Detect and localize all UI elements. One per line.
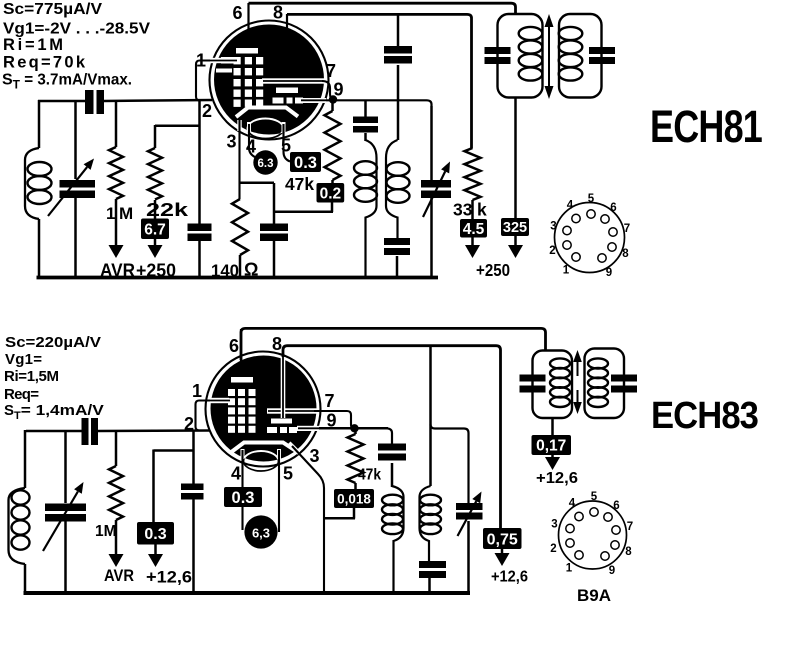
svg-text:Sc=220µA/V: Sc=220µA/V [5,334,101,351]
tube ECH83 pin 7 lead outside [314,411,355,429]
IF transformer T1 left winding feed (top) [364,100,367,117]
wire: ground rail (top circuit) [37,276,439,280]
resistor R5 33k [465,148,481,200]
svg-text:6: 6 [232,3,242,23]
tube socket (B9A) pin holes [590,508,598,516]
tube ECH81 bottom seal ellipse (white part inside body) [248,119,284,139]
arrow to +250 (left) [154,239,157,246]
svg-text:1: 1 [563,265,570,277]
arrow below 325 box [508,245,523,258]
svg-text:4: 4 [567,200,574,212]
capacitor C12 above T3 left coil (bottom) [378,444,406,451]
svg-text:6: 6 [613,500,619,512]
svg-text:8: 8 [273,3,283,23]
capacitor C13 below T3 right coil (bottom) [419,561,446,568]
svg-text:0.3: 0.3 [144,526,166,543]
wire: left antenna column (top) [38,100,41,148]
box 0,018 [354,483,357,490]
svg-text:3: 3 [551,519,557,531]
wire: coil2 to trimmer link (bottom) [431,425,469,504]
svg-text:3: 3 [226,132,236,152]
wire: T2 primary to 325 box [514,97,517,246]
tube ECH83 U2 envelope outer circle [206,352,321,467]
IF output transformer T2 right can (top right) [559,14,602,98]
T4 coupling arrows [573,350,582,362]
svg-text:47k: 47k [285,174,314,194]
svg-text:1M: 1M [95,523,117,540]
tube ECH81 pin 7 lead channel [262,78,325,83]
IF transformer T3 right coil L6 (bottom) [420,486,431,561]
tube ECH83 bottom seal ellipse (outer part) [244,451,279,471]
arrow to +12,6 (bottom left) [154,545,157,556]
svg-text:4.5: 4.5 [463,221,485,238]
heater indicator circle 6,3 (bottom) [244,515,277,548]
arrow to AVR (top) [109,245,124,258]
box 4.5 [471,200,474,246]
svg-text:9: 9 [609,565,615,577]
svg-text:8: 8 [272,334,282,354]
resistor R6 1M (bottom) [115,431,118,466]
svg-text:8: 8 [622,248,629,260]
wire: grid line from antenna to tube pin 2 (top) [38,100,85,103]
wire: supply line pin 8 (bottom) [283,346,501,528]
svg-text:6.7: 6.7 [144,221,166,238]
box 0.3 (on pin 4, bottom) [224,487,262,507]
wire: left antenna column (bottom) [24,430,27,488]
T2 coupling arrow [548,26,550,87]
tube ECH81 U1 envelope outer circle [210,21,329,140]
wire: supply line pin 8 (top) [287,14,472,148]
svg-text:9: 9 [606,267,612,279]
svg-text:6: 6 [610,202,616,214]
wire: stub to 0.3 decoupling branch (bottom) [154,449,195,452]
junction dot node 9 (bottom) [350,424,358,432]
wire: supply line pin 6 to IF transformer (top) [249,3,516,14]
arrow to +12,6 (0,17 branch) [551,455,554,459]
wire: 0,018 to pin 3 ground branch [353,508,356,519]
svg-text:5: 5 [588,193,595,205]
tube ECH83 pin 3 lead [289,443,298,452]
svg-text:4: 4 [246,137,256,157]
svg-text:1: 1 [196,51,206,71]
svg-text:k: k [477,200,487,220]
box 6.7 (current label) [154,200,157,219]
wire: grid-capacitor branch (bottom) [192,431,195,484]
capacitor C10 series coupling (bottom) [82,418,89,445]
svg-text:AVR: AVR [100,261,135,281]
capacitor C4 on IF primary (top) [384,46,412,54]
capacitor C3 grid bypass (top) [188,224,212,232]
svg-text:+12,6: +12,6 [491,569,528,586]
svg-text:0,17: 0,17 [536,438,566,455]
svg-text:2: 2 [202,101,212,121]
tube ECH81 pin 3 lead [237,120,241,131]
tube ECH81 pin 6 lead [247,3,249,31]
svg-text:7: 7 [627,521,633,533]
tube socket diagram (B9A) base circle [559,501,627,569]
tube ECH81 cathode line (white) [236,108,298,118]
IF transformer T1 right coil L3 [386,140,398,238]
svg-text:4: 4 [569,498,576,510]
svg-text:2: 2 [549,245,555,257]
svg-text:5: 5 [281,136,291,156]
svg-text:0.3: 0.3 [232,489,255,507]
T2 left coil loops [519,27,543,40]
T4 right coil loops [588,358,608,368]
wire: grid-capacitor branch (top) [198,100,201,224]
svg-text:Ri=1,5M: Ri=1,5M [4,368,59,385]
resistor R1 1M (top) [115,101,118,147]
T2 right capacitor [589,47,615,54]
svg-text:B9A: B9A [577,586,611,605]
node 9 wire (bottom) [319,427,388,430]
svg-text:140: 140 [211,261,239,281]
svg-text:2: 2 [550,543,556,555]
wire: T4 primary to 0,17 box [551,418,554,435]
box 0.3 (top heater current) [290,152,321,172]
svg-text:3: 3 [309,446,319,466]
svg-text:+250: +250 [476,260,510,280]
trimmer capacitor C8 (T1 tuning, top) [421,180,451,188]
svg-text:7: 7 [326,61,336,81]
wire: anode branch to T3 coil 2 (bottom) [429,346,432,487]
svg-text:1: 1 [106,204,115,223]
svg-text:ECH81: ECH81 [650,101,762,152]
tube ECH81 pin 4 lead [247,122,251,132]
wire: cathode capacitor branch (top) [273,183,276,224]
arrow to +12,6 (0,75 branch) [501,549,504,555]
svg-text:5: 5 [283,464,293,484]
trimmer capacitor C14 (T3 tuning, bottom) [456,503,483,510]
tube ECH83 bottom seal ellipse (white part inside body) [244,451,279,471]
svg-text:M: M [119,204,133,223]
trimmer capacitor C9 (antenna tuning, bottom) [64,431,67,503]
IF transformer T3 left coil L5 (bottom) [392,486,404,592]
capacitor C6 above T1 left coil [353,117,378,124]
tube ECH83 pin 4 lead [241,449,245,459]
tube ECH81 pin 8 lead [286,14,288,34]
svg-text:7: 7 [624,223,630,235]
tube ECH83 cathode line (white) [230,443,299,454]
svg-text:Vg1=-2V . . .-28.5V: Vg1=-2V . . .-28.5V [3,21,150,38]
IF output transformer T2 left can (top right) [498,14,543,98]
tube ECH81 pin 5 lead [282,122,286,132]
svg-text:22k: 22k [146,200,189,220]
tube ECH81 pin 7 lead outside [322,81,333,99]
junction dot node 9 (top) [329,95,337,103]
T2 right coil loops [559,27,583,40]
arrow to AVR (bottom) [109,554,124,567]
svg-text:2: 2 [184,414,194,434]
tube ECH83 pin 9 lead channel [297,426,319,431]
tube socket (ECH81) pin holes [587,210,595,218]
svg-text:+12,6: +12,6 [146,568,192,587]
resistor R3 47k (top) [331,99,334,111]
svg-text:6.3: 6.3 [258,158,274,170]
tube ECH83 pin 7 lead channel [267,408,317,413]
svg-text:3: 3 [550,221,556,233]
arrow to +250 (right) [465,245,480,258]
T2 left capacitor [485,47,511,54]
svg-text:4: 4 [231,464,241,484]
svg-text:7: 7 [324,391,334,411]
svg-text:33: 33 [453,200,473,220]
capacitor C5 cathode bypass (top) [260,224,288,232]
svg-text:1: 1 [566,563,573,575]
wire: node 9 to T3 capacitor branch (bottom) [386,428,392,443]
tube ECH83 pin 6 lead [240,329,242,362]
svg-text:1: 1 [192,381,202,401]
svg-text:ECH83: ECH83 [651,395,758,437]
svg-text:6,3: 6,3 [252,526,270,541]
svg-text:0.2: 0.2 [320,185,342,202]
T4 right capacitor [611,375,637,382]
tube socket diagram (ECH81) base circle [555,203,625,273]
tube ECH83 pin 1 lead [208,398,229,403]
svg-text:5: 5 [591,491,598,503]
antenna coil L4 (bottom circuit) [9,488,26,564]
svg-text:6: 6 [229,336,239,356]
svg-text:325: 325 [503,220,527,236]
svg-text:8: 8 [625,546,632,558]
wire: pin8 branch to IF primary capacitor (top) [397,14,400,46]
T4 left capacitor [520,375,546,382]
tube ECH81 pin 9 lead channel [300,98,326,103]
svg-text:47k: 47k [358,467,381,484]
svg-text:+12,6: +12,6 [536,470,578,487]
capacitor C11 grid bypass (bottom) [181,484,204,491]
svg-text:Ri=1M: Ri=1M [3,36,63,54]
wire: ground rail (bottom circuit) [24,591,471,595]
svg-text:Ω: Ω [244,260,258,280]
IF transformer T1 left coil L2 [366,140,377,277]
box 325 [501,218,529,236]
svg-text:Req=: Req= [4,386,39,403]
node 9 wire to trimmer branch (top) [326,100,432,106]
capacitor C7 below T1 right coil [384,238,410,245]
tube ECH81 grid/electrode white marks [236,48,258,54]
resistor R2 22k [155,125,200,128]
antenna coil L1 (top circuit) [25,148,39,219]
svg-text:Vg1=: Vg1= [5,351,42,368]
tube ECH83 pin 8 lead channel [281,357,286,418]
capacitor C2 series coupling (top) [85,90,94,114]
svg-text:0,75: 0,75 [487,531,518,548]
wire: grid line from antenna to tube pin 2 (bottom) [26,430,82,433]
resistor R4 140 ohm [232,199,248,255]
box 0.2 [331,180,334,185]
svg-text:AVR: AVR [104,567,134,585]
wire: supply line pin 6 (bottom) [241,328,546,360]
box 0.3 (bottom left) [137,522,174,545]
svg-text:+250: +250 [136,261,176,281]
box 0,17 [532,435,572,455]
svg-text:0.3: 0.3 [294,154,317,172]
tube ECH81 pin 1 lead [209,58,234,63]
wire: 0.2 box to cathode node (top) [331,203,334,213]
tube ECH81 bottom seal ellipse (outer part) [248,119,284,139]
heater indicator circle 6.3 (top) [253,150,277,174]
box 0,75 [483,528,522,549]
tube ECH83 grid/electrode white marks [231,377,253,383]
svg-text:0,018: 0,018 [337,491,371,506]
trimmer capacitor C1 (antenna tuning, top) [74,101,77,179]
IF output transformer T4 right can (bottom right) [585,349,625,419]
svg-text:Sc=775µA/V: Sc=775µA/V [3,1,102,18]
wire: cathode to 140 ohm resistor (top) [240,182,275,185]
resistor R7 47k (bottom) [354,428,357,434]
IF output transformer T4 left can (bottom right) [533,351,573,419]
tube ECH83 pin 5 lead [277,449,281,459]
T4 left coil loops [550,358,570,368]
